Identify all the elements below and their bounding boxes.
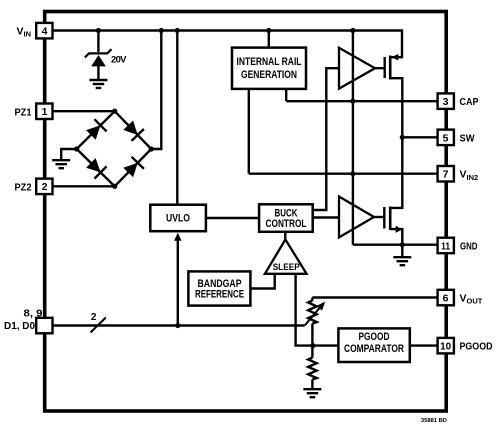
RADJ adjust arrow (305, 302, 325, 326)
pin 6 box (438, 290, 454, 306)
node VIN-zener (96, 28, 101, 33)
wire zener bottom stub (97, 66, 99, 79)
wire BUCK to bottom driver (313, 216, 339, 218)
wire CAP (286, 100, 438, 102)
pin 2 box (36, 179, 52, 195)
wire R1 top stub (311, 346, 313, 358)
pin 1 box (36, 104, 52, 120)
wire zener top stub (97, 31, 99, 53)
svg-text:GND: GND (460, 240, 478, 252)
wire bus D1 D0 (53, 324, 305, 326)
pin 3 box (438, 93, 454, 109)
wire BUCK to SLEEP apex (284, 232, 286, 240)
node VIN2-rail (350, 171, 355, 176)
wire divider mid stub (311, 324, 313, 346)
block PGOOD COMPARATOR (338, 328, 409, 362)
svg-text:6: 6 (443, 293, 449, 305)
wire BUCK to top driver (313, 68, 339, 210)
wire bridge output riser (151, 31, 161, 150)
wire PMOS drain to SW (390, 78, 402, 137)
block INTERNAL RAIL GENERATION (232, 48, 306, 89)
node SW (400, 135, 405, 140)
wire node to PGOOD comparator (313, 344, 338, 346)
NMOS M2 (374, 207, 390, 231)
wire gate-driver rail (352, 31, 354, 245)
wire UVLO supply riser (176, 31, 178, 204)
diode D2 (top-right) (123, 121, 144, 141)
node VIN-IRG (266, 28, 271, 33)
svg-text:PGOOD: PGOOD (460, 341, 493, 353)
node bus-UVLO (175, 323, 180, 328)
diode D1 (left-top) (86, 119, 107, 140)
svg-text:UVLO: UVLO (166, 213, 190, 225)
svg-text:COMPARATOR: COMPARATOR (344, 343, 404, 355)
pin 11 box (438, 238, 454, 254)
svg-text:4: 4 (42, 25, 48, 37)
svg-text:1: 1 (42, 106, 48, 118)
svg-text:CAP: CAP (460, 96, 479, 108)
svg-text:35881 BD: 35881 BD (421, 418, 447, 424)
NMOS body arrow (396, 226, 402, 233)
node bridge left (74, 146, 79, 151)
block BANDGAP REFERENCE (188, 271, 250, 305)
pin 10 box (438, 338, 454, 354)
wire VIN rail (53, 29, 403, 31)
wire PGOOD output (410, 344, 438, 346)
bus width slash (91, 318, 106, 333)
arrow UVLO enable from bus (174, 233, 182, 326)
wire divider top stub (311, 298, 313, 301)
wire NMOS source to GND (390, 229, 402, 245)
svg-text:SW: SW (460, 132, 475, 144)
svg-text:2: 2 (91, 312, 97, 323)
svg-text:GENERATION: GENERATION (241, 69, 297, 81)
svg-text:SLEEP: SLEEP (273, 261, 300, 272)
svg-text:10: 10 (440, 341, 451, 353)
svg-text:8, 9: 8, 9 (24, 308, 43, 320)
block BUCK CONTROL (259, 204, 313, 232)
bridge rectifier edges (77, 111, 152, 186)
svg-text:7: 7 (443, 169, 449, 181)
wire BANDGAP to SLEEP (250, 274, 274, 289)
wire IRG to CAP (285, 89, 287, 101)
wire NMOS drain to SW (390, 137, 402, 208)
ground below zener (89, 80, 107, 88)
wire PMOS source to VIN (390, 29, 402, 57)
svg-text:PGOOD: PGOOD (359, 331, 390, 343)
wire SW (402, 136, 438, 138)
node bridge right (149, 146, 154, 151)
svg-text:3: 3 (443, 96, 449, 108)
node VIN-bridge (159, 28, 164, 33)
pin 4 box (36, 23, 52, 39)
wire GND rail (353, 243, 438, 245)
ground at NMOS source (393, 257, 411, 265)
node bridge bottom (112, 184, 117, 189)
wire PZ1 (53, 110, 115, 112)
PMOS body arrow (392, 54, 399, 61)
wire VIN2 (249, 172, 438, 174)
wire SLEEP to feedback node (296, 274, 313, 346)
pin 5 box (438, 130, 454, 146)
svg-text:PZ2: PZ2 (15, 181, 32, 193)
node bridge top (112, 109, 117, 114)
wire PZ2 (53, 185, 115, 187)
node CAP-rail (350, 99, 355, 104)
zener diode D5 20V (85, 49, 112, 66)
SLEEP comparator triangle (265, 240, 307, 274)
svg-text:20V: 20V (111, 55, 127, 66)
wire bridge ground stub (61, 149, 76, 159)
svg-text:2: 2 (42, 181, 48, 193)
wire VOUT (312, 296, 437, 298)
gate driver buffer A2 (bottom) (339, 197, 374, 238)
svg-text:11: 11 (441, 241, 450, 253)
svg-text:PZ1: PZ1 (15, 106, 32, 118)
ground below R1 (303, 389, 321, 397)
pin 7 box (438, 166, 454, 182)
pin D1 D0 box (36, 318, 52, 334)
wire GND symbol stub (401, 245, 403, 257)
svg-text:D1, D0: D1, D0 (4, 320, 35, 332)
node feedback (310, 343, 315, 348)
gate driver buffer A1 (top) (339, 48, 375, 89)
node VIN-UVLO (175, 28, 180, 33)
block UVLO (150, 205, 206, 232)
feedback resistor R1 (308, 358, 317, 380)
diode D3 (left-bottom) (86, 158, 107, 179)
IC outline border (45, 12, 447, 412)
wire IRG top stub (268, 31, 270, 48)
svg-text:INTERNAL RAIL: INTERNAL RAIL (237, 56, 302, 68)
svg-text:CONTROL: CONTROL (266, 218, 307, 230)
wire IRG to VIN2 (248, 89, 250, 174)
wire R1 bottom stub (311, 380, 313, 389)
ground at bridge left node (52, 160, 70, 168)
svg-text:REFERENCE: REFERENCE (195, 289, 244, 301)
node GND (400, 242, 405, 247)
diode D4 (bottom-right) (123, 157, 144, 178)
wire UVLO to BUCK (206, 217, 259, 219)
adjustable output resistor RADJ (308, 301, 317, 324)
node VIN-driver rail (350, 28, 355, 33)
PMOS M1 (375, 56, 390, 80)
svg-text:5: 5 (443, 132, 449, 144)
